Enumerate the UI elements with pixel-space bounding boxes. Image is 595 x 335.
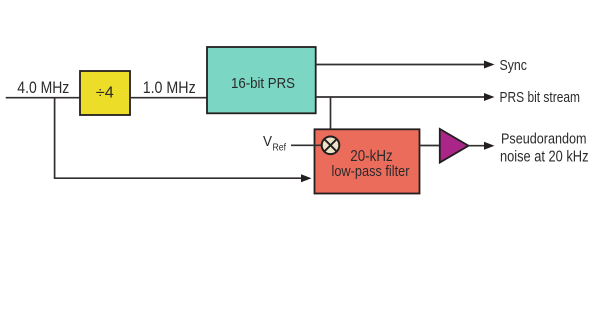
arrowhead Sync (484, 61, 495, 69)
filter box: 20-kHz low-pass filter (315, 129, 420, 193)
wire: divider output to PRS (130, 97, 207, 99)
wire: branch down from input line (54, 98, 56, 179)
wire: amplifier output (469, 145, 487, 147)
arrowhead into low-pass filter (301, 174, 312, 182)
svg-text:4.0 MHz: 4.0 MHz (17, 79, 69, 97)
wire: 4.0-MHz input line (6, 97, 80, 99)
svg-text:PRS bit stream: PRS bit stream (500, 89, 581, 106)
amplifier A1 (triangle) (440, 129, 469, 163)
svg-text:÷4: ÷4 (96, 85, 114, 102)
svg-text:16-bit PRS: 16-bit PRS (231, 75, 295, 92)
wire: drop from PRS bit stream line to mixer (330, 97, 332, 138)
divider box ÷4 (80, 71, 130, 115)
svg-text:low-pass filter: low-pass filter (332, 163, 410, 180)
wire: Sync output (316, 64, 486, 66)
svg-text:Pseudorandom: Pseudorandom (501, 130, 587, 147)
svg-text:Sync: Sync (500, 57, 528, 74)
mixer M1 (multiplier circle) (322, 137, 340, 155)
wire: VRef feed (291, 144, 322, 146)
arrowhead output (484, 142, 495, 150)
wire: PRS bit stream output (316, 96, 486, 98)
svg-text:V: V (263, 133, 272, 150)
svg-text:Ref: Ref (273, 142, 287, 154)
mixer X cross (325, 139, 337, 151)
PRS box U1: 16-bit PRS (207, 47, 316, 113)
wire: bottom horizontal run to low-pass filter (54, 177, 303, 179)
wire: filter output to amplifier (420, 145, 441, 147)
svg-text:1.0 MHz: 1.0 MHz (143, 79, 196, 97)
svg-text:noise at 20 kHz: noise at 20 kHz (500, 148, 589, 165)
arrowhead PRS bit stream (484, 93, 495, 101)
